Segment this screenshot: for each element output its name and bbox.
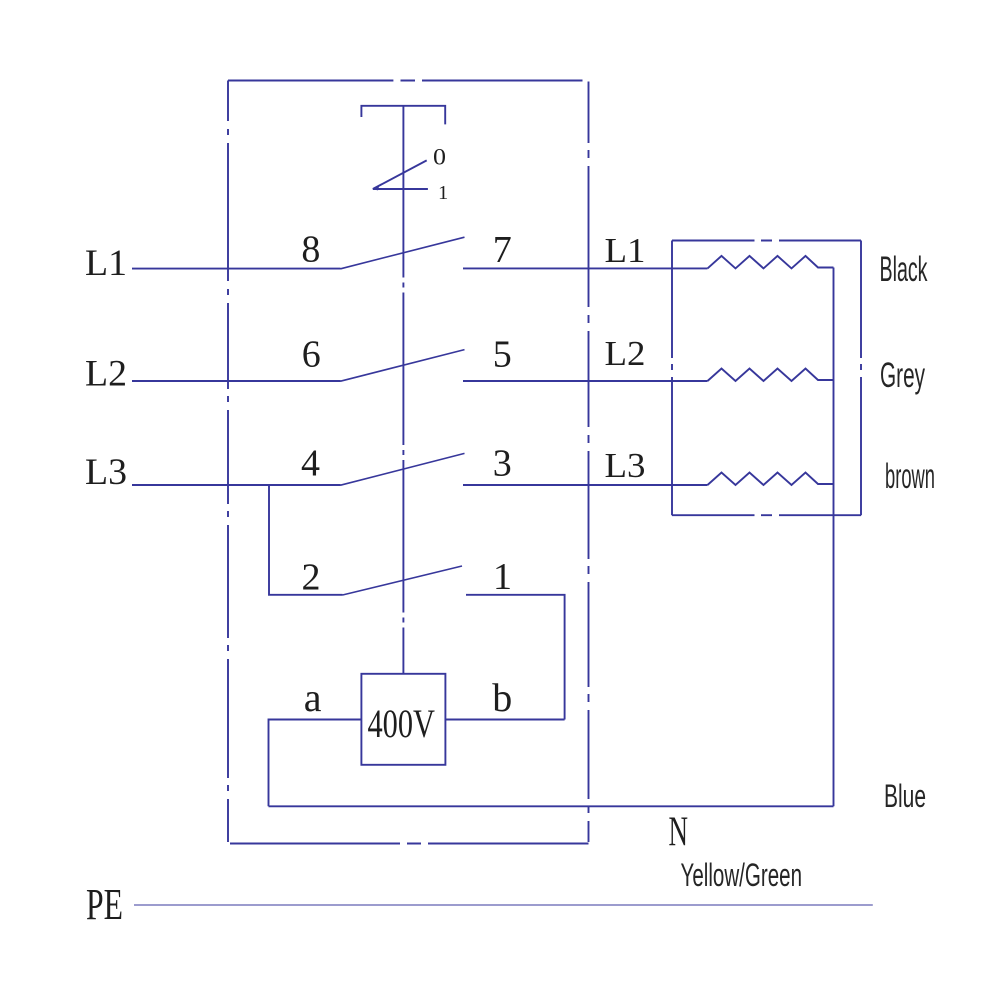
svg-text:PE: PE — [86, 880, 123, 929]
pole 3 blade — [341, 453, 465, 485]
svg-text:L3: L3 — [85, 452, 127, 493]
svg-text:3: 3 — [493, 443, 512, 485]
svg-text:brown: brown — [885, 457, 935, 496]
resistor R1 (Black) zigzag — [708, 256, 834, 269]
resistor R3 (brown) zigzag — [708, 473, 834, 486]
svg-text:L1: L1 — [605, 231, 646, 270]
heater box top edge (dash-dot) — [672, 240, 861, 242]
neutral return bus wire — [833, 268, 835, 807]
svg-text:Black: Black — [880, 250, 928, 289]
svg-text:Grey: Grey — [880, 356, 925, 395]
svg-text:a: a — [304, 675, 322, 720]
lamp lead b (right) — [446, 719, 565, 721]
svg-text:1: 1 — [438, 182, 448, 204]
switch top T bracket — [361, 106, 445, 125]
svg-text:2: 2 — [302, 557, 321, 599]
pole 1 blade — [341, 237, 465, 269]
outer enclosure box left edge (dash-dot) — [227, 81, 229, 843]
pole 4 right wire (contact 1) — [466, 595, 565, 720]
svg-text:L2: L2 — [85, 354, 127, 395]
svg-text:5: 5 — [493, 334, 512, 376]
tap wire from L3 down to pole 4 — [269, 485, 343, 595]
svg-text:0: 0 — [433, 145, 446, 170]
svg-text:7: 7 — [493, 229, 512, 271]
heater box bottom edge (dash-dot) — [672, 514, 861, 516]
pole 1 right wire (contact 7 to heater R1) — [463, 267, 708, 269]
outer enclosure box bottom edge (dash-dot) — [230, 843, 589, 845]
selector position indicator — [373, 160, 428, 189]
switch shaft (dash-dot vertical) — [402, 106, 404, 674]
pole 1 left wire (L1 to contact 8) — [132, 268, 341, 270]
pole 2 blade — [341, 350, 465, 382]
svg-text:L3: L3 — [605, 446, 646, 485]
heater box right edge (dash-dot) — [860, 241, 862, 516]
svg-text:Blue: Blue — [884, 778, 926, 814]
svg-text:4: 4 — [301, 443, 320, 485]
lamp lead a (left) — [269, 720, 362, 807]
outer enclosure box top edge (dash-dot) — [228, 80, 583, 82]
svg-text:N: N — [669, 810, 689, 856]
svg-text:L2: L2 — [605, 334, 646, 373]
lamp box U1 (400V indicator) — [361, 674, 445, 765]
outer enclosure box right edge (dash-dot) — [588, 82, 590, 843]
heater box left edge (dash-dot) — [671, 241, 673, 516]
svg-text:400V: 400V — [368, 701, 436, 746]
svg-text:8: 8 — [301, 229, 320, 271]
pole 2 left wire (L2 to contact 6) — [132, 380, 341, 382]
svg-text:1: 1 — [493, 556, 512, 598]
svg-text:L1: L1 — [85, 243, 127, 284]
blue neutral wire — [269, 805, 834, 807]
svg-text:6: 6 — [302, 334, 321, 376]
svg-text:b: b — [492, 675, 512, 720]
svg-text:Yellow/Green: Yellow/Green — [681, 857, 803, 893]
pole 3 left wire (L3 to contact 4) — [132, 484, 341, 486]
pole 3 right wire (contact 3 to heater R3) — [463, 484, 708, 486]
selector arrowhead — [373, 185, 380, 190]
pole 2 right wire (contact 5 to heater R2) — [463, 380, 708, 382]
pole 4 blade — [343, 566, 463, 595]
PE conductor line — [134, 904, 873, 906]
resistor R2 (Grey) zigzag — [708, 369, 834, 382]
